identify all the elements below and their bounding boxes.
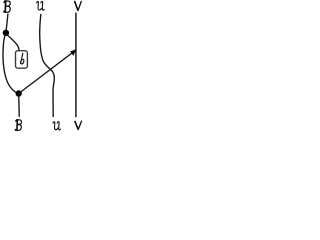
wire bottom dot to bottom B (18, 94, 21, 117)
label u (top) (37, 1, 45, 10)
label B (top) (4, 1, 10, 12)
label v (bottom) (75, 121, 82, 129)
dot (bottom, multiplication) (16, 90, 22, 96)
copy dot (top) (3, 30, 9, 36)
box b (16, 51, 28, 68)
wire left branch B (dot to bottom dot) (3, 33, 19, 94)
label u (bottom) (53, 122, 61, 130)
wire from copy dot to box b (6, 34, 19, 51)
label B (bottom) (15, 120, 21, 131)
wire u (top to bottom with S-bend) (40, 14, 55, 117)
arrowhead on v wire (71, 49, 77, 55)
label b (in box) (21, 53, 24, 64)
wire from top B to copy dot (6, 14, 8, 31)
label v (top) (75, 1, 82, 10)
background (0, 0, 86, 132)
arrow shaft from bottom dot to v wire (19, 52, 74, 94)
wire v (vertical) (75, 13, 77, 118)
